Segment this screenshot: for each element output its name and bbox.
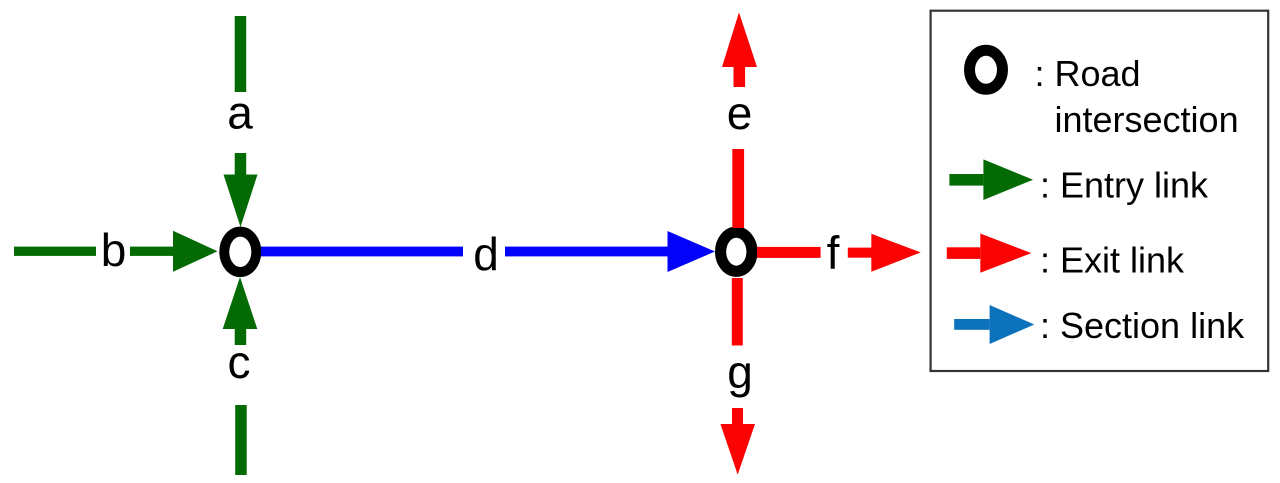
road intersection node 2	[721, 232, 752, 271]
exit link g: arrow head down	[720, 424, 755, 475]
entry link c: arrow into node (shaft)	[235, 329, 247, 345]
exit link f: arrow head	[871, 234, 920, 272]
svg-text:f: f	[827, 226, 840, 278]
legend section link arrow shaft	[954, 319, 989, 330]
svg-text:d: d	[473, 228, 499, 280]
section link d: left segment	[261, 247, 463, 257]
svg-text:a: a	[227, 87, 253, 139]
exit link g: arrow shaft	[732, 408, 743, 424]
section link d: arrow head	[668, 231, 716, 272]
entry link a: arrow into node (shaft)	[235, 153, 247, 175]
entry link c: arrow into node (head)	[223, 277, 258, 329]
svg-text:: Road: : Road	[1035, 53, 1141, 94]
exit link e: arrow shaft	[734, 67, 746, 87]
section link d: right segment	[505, 247, 668, 257]
entry link b: left segment	[14, 247, 96, 256]
svg-text:e: e	[727, 87, 753, 139]
entry link b: arrow into node (head)	[173, 231, 218, 272]
exit link g: segment from node	[732, 278, 743, 346]
svg-text:g: g	[727, 346, 753, 398]
legend exit link arrow shaft	[947, 247, 981, 259]
legend entry link arrow head	[983, 159, 1033, 200]
svg-text:: Exit link: : Exit link	[1040, 240, 1185, 281]
legend box frame	[931, 11, 1269, 371]
road intersection node 1	[224, 232, 256, 272]
svg-text:intersection: intersection	[1055, 99, 1239, 140]
exit link f: segment from node	[757, 247, 821, 258]
legend section link arrow head	[990, 305, 1035, 344]
legend entry link arrow shaft	[949, 174, 983, 186]
svg-text:: Section link: : Section link	[1040, 305, 1245, 346]
entry link b: arrow into node (shaft)	[130, 247, 173, 256]
exit link e: arrow head up	[722, 12, 757, 67]
svg-text:c: c	[228, 336, 251, 388]
exit link f: arrow shaft	[848, 248, 872, 258]
legend exit link arrow head	[980, 234, 1031, 273]
svg-text:b: b	[101, 224, 127, 276]
svg-text:: Entry link: : Entry link	[1040, 165, 1209, 206]
legend road intersection symbol	[970, 50, 1003, 89]
entry link a: arrow into node (head)	[224, 175, 258, 228]
exit link e: segment to node	[732, 149, 744, 228]
entry link a: upper segment	[235, 16, 247, 92]
entry link c: lower segment	[235, 405, 247, 475]
